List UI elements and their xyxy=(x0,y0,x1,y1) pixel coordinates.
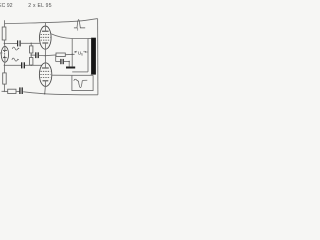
wire Ub right segment xyxy=(85,51,88,52)
wire C2 to lower grid xyxy=(25,64,42,66)
ground bar xyxy=(66,67,75,69)
node Ub crossing xyxy=(72,54,73,55)
wire C4 right to ground node xyxy=(64,61,69,63)
wire line B anode to C1 xyxy=(4,42,17,44)
node grid-leak mid junction xyxy=(31,54,32,55)
tube V3 grid dashes g2 xyxy=(40,73,50,75)
tube V2 cathode bar xyxy=(42,42,48,44)
wire output box right edge xyxy=(87,39,89,72)
wire output box bottom edge xyxy=(72,71,88,73)
wire top supply rail xyxy=(5,19,98,24)
wire midpoint to R4 xyxy=(45,54,56,57)
resistor R6 feedback xyxy=(8,89,16,93)
wire R1 top to rail xyxy=(3,24,5,27)
resistor R5 cathode resistor xyxy=(3,73,6,84)
wire stub above rail left end xyxy=(4,20,6,24)
tube V3 cathode lead to rail xyxy=(44,81,47,94)
wire speaker bottom link xyxy=(90,74,92,77)
wire W1 stub xyxy=(77,28,79,31)
tube V1 anode bar xyxy=(3,49,7,51)
tube V3 grid dashes g3 xyxy=(41,77,51,79)
waveform W2 distorted output xyxy=(74,79,88,87)
tube V1 cathode dot xyxy=(4,56,6,58)
wire C4 left horizontal xyxy=(56,61,61,63)
tube V2 cathode lead to midpoint xyxy=(44,43,46,56)
node cathode junction xyxy=(4,65,5,66)
wire mid node to C3 xyxy=(31,54,35,56)
tube V2 grid dashes g3 xyxy=(41,39,51,41)
wire R2 bottom to mid node xyxy=(30,53,32,58)
tube V2 anode bar xyxy=(42,30,49,32)
capacitor C2 coupling lower xyxy=(22,62,25,68)
waveform S2 sine annotation xyxy=(12,58,19,61)
wire C1 to upper grid xyxy=(21,42,41,44)
capacitor C5 series bottom xyxy=(20,87,22,94)
capacitor C4 bypass xyxy=(61,59,63,64)
waveform box outline xyxy=(72,75,93,90)
wire ground drop xyxy=(68,62,70,67)
node R3 bottom junction xyxy=(31,65,32,66)
wire V1 grid input dashed xyxy=(0,52,3,54)
tube V2 grid dashes g1 xyxy=(41,34,51,36)
wire output box left edge xyxy=(71,39,73,67)
node upper grid-leak tap xyxy=(31,43,32,44)
capacitor C3 bootstrap xyxy=(36,52,38,58)
wire speaker top link xyxy=(88,38,91,40)
wire R5 bottom to ground rail xyxy=(3,84,5,91)
tube V3 EL95 lower envelope xyxy=(39,63,51,87)
tube V1 grid dashes xyxy=(4,51,6,57)
wire R4 to Ub line xyxy=(65,53,74,55)
wire right edge vertical xyxy=(97,19,99,95)
label +Ub supply xyxy=(74,51,76,52)
waveform W1 pulse annotation xyxy=(74,20,85,28)
wire R2 top xyxy=(30,43,32,46)
tube V3 anode lead to midpoint xyxy=(44,56,46,68)
tube V2 EL95 upper envelope xyxy=(40,26,52,49)
tube V3 screen lead wire xyxy=(51,74,72,76)
svg-text:EC 92: EC 92 xyxy=(0,3,13,9)
node anode junction xyxy=(4,43,5,44)
node cathode-rail junction xyxy=(44,93,45,94)
wire bottom link to waveform box xyxy=(72,74,93,76)
tube V2 grid dashes g2 xyxy=(40,36,50,38)
tube V1 cathode lead xyxy=(3,58,6,65)
speaker solid bar xyxy=(91,38,96,75)
node bottom-left junction xyxy=(4,91,5,92)
wire cathode node to R5 xyxy=(3,65,5,73)
tube V3 cathode bar xyxy=(43,80,49,82)
wire bottom rail center-right xyxy=(23,92,98,95)
tube V2 anode lead to rail xyxy=(44,23,46,32)
node ground tap xyxy=(69,61,70,62)
tube V2 screen lead wire xyxy=(51,34,88,39)
tube V1 anode lead xyxy=(3,44,6,51)
tube V1 cathode arc xyxy=(3,56,7,59)
wire bottom rail left xyxy=(2,90,8,92)
resistor R3 lower grid leak xyxy=(30,58,33,66)
wire C3 to midpoint xyxy=(39,55,46,57)
wire line C cathode to C2 xyxy=(4,64,21,66)
resistor R1 anode resistor xyxy=(2,27,6,40)
capacitor C1 coupling upper xyxy=(18,40,21,46)
tube V3 anode bar xyxy=(42,67,49,69)
wire R1 bottom to anode node xyxy=(3,40,5,44)
resistor R4 output series xyxy=(56,53,65,57)
wire C4 left stub xyxy=(55,55,57,62)
wire R6 to C5 xyxy=(16,91,19,93)
svg-text:2 x EL 95: 2 x EL 95 xyxy=(28,3,52,9)
node SEPP midpoint xyxy=(45,55,46,56)
tube V1 EC92 envelope xyxy=(1,46,8,62)
waveform S1 sine annotation xyxy=(12,47,18,50)
tube V3 grid dashes g1 xyxy=(41,70,51,72)
resistor R2 upper grid leak xyxy=(30,46,33,53)
